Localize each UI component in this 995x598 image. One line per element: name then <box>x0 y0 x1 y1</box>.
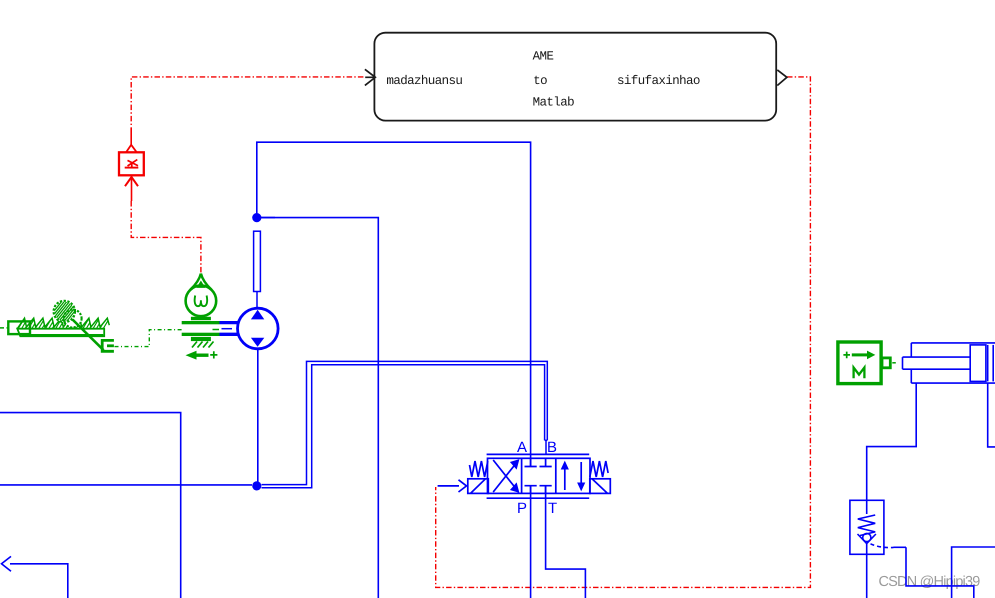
right pilot box <box>590 479 611 494</box>
directional valve V1 4/3 <box>438 442 611 513</box>
hydraulic cylinder C1 <box>903 343 995 383</box>
rack tooth band <box>17 318 109 329</box>
pump P1 <box>220 308 279 349</box>
left pilot box <box>468 479 489 494</box>
top and bottom port bars <box>487 453 590 455</box>
rack base bar <box>17 329 104 337</box>
gain block K1 <box>119 128 144 201</box>
pipe (direct) vertical above pump <box>254 231 261 308</box>
wire relief pilot line <box>906 547 974 598</box>
hatch mount <box>192 342 214 348</box>
fork connector <box>102 340 114 351</box>
plus and arrow <box>196 354 209 357</box>
three position boxes <box>488 458 591 493</box>
rack and worm gear icon (prime mover) <box>0 296 114 351</box>
mass block M1 <box>838 342 898 384</box>
rotary speed source W1 <box>182 274 220 360</box>
left spring <box>469 461 487 477</box>
wire relief valve bottom to bottom edge <box>866 554 868 598</box>
left box crossed arrows <box>493 464 515 492</box>
node junction dot lower <box>252 481 261 490</box>
wire pump bottom to lower node <box>257 349 259 482</box>
port labels <box>517 442 527 452</box>
node junction dot upper <box>252 213 275 222</box>
wire from upper node to bottom edge <box>257 218 379 598</box>
wire green dash-dot rack to shaft <box>115 330 183 347</box>
wire lower node to left edge <box>0 484 252 486</box>
wire red dash-dot gain to speed source <box>131 201 201 273</box>
watermark <box>879 576 979 590</box>
tank corner bottom right <box>952 547 995 598</box>
AME to Matlab interface block U1 <box>365 33 787 121</box>
wire cylinder to relief valve <box>867 383 917 500</box>
right spring <box>590 461 608 477</box>
right box parallel arrows <box>564 466 566 490</box>
shaft bars <box>191 317 211 320</box>
pilot input arrow <box>438 485 459 487</box>
wire blue pump top to valve A line <box>257 142 531 466</box>
wire bottom-left with arrow <box>2 556 68 598</box>
wire red dash-dot AME box to valve pilot <box>436 77 811 588</box>
output arrow <box>777 70 787 86</box>
wire valve T to bottom edge <box>546 486 586 598</box>
wire blue dash into pump hub <box>222 328 233 330</box>
wire green dash into shaft <box>213 329 220 331</box>
pipe double line from lower node to valve B <box>262 361 548 487</box>
gear link shaft <box>73 320 104 351</box>
wire red dash-dot gain to AME box <box>131 77 364 144</box>
middle box blocked ports <box>525 458 537 466</box>
input arrow <box>365 69 375 85</box>
wire tank line left rectangle <box>0 413 181 598</box>
wire cylinder right port to right edge <box>988 383 995 447</box>
input stub box <box>8 321 30 334</box>
gear cylinder <box>54 301 75 322</box>
wire valve P to bottom edge <box>530 486 532 598</box>
relief valve RV1 <box>850 500 906 554</box>
